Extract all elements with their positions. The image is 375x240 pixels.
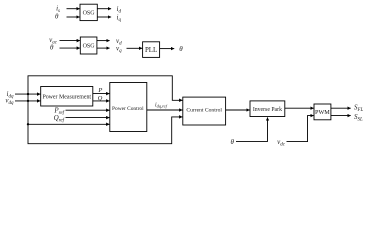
svg-text:Power Measurement: Power Measurement <box>42 94 91 100</box>
svg-text:θ: θ <box>55 12 59 20</box>
svg-text:θ: θ <box>179 45 183 53</box>
svg-text:OSG: OSG <box>83 10 96 16</box>
svg-text:PWM: PWM <box>315 109 330 116</box>
svg-text:SFL: SFL <box>354 104 364 114</box>
svg-text:SSL: SSL <box>354 113 363 123</box>
svg-text:OSG: OSG <box>83 44 96 50</box>
svg-text:Current Control: Current Control <box>186 108 222 114</box>
svg-text:vdc: vdc <box>277 138 286 148</box>
svg-text:Power Control: Power Control <box>112 106 144 112</box>
svg-text:θ: θ <box>231 138 235 146</box>
svg-text:iq: iq <box>117 13 122 23</box>
svg-text:PLL: PLL <box>145 47 157 54</box>
svg-text:P: P <box>97 87 102 94</box>
svg-text:θ: θ <box>50 43 54 51</box>
svg-text:Inverse Park: Inverse Park <box>253 107 282 113</box>
svg-text:Q: Q <box>98 95 103 102</box>
svg-text:idq,ref: idq,ref <box>155 102 168 109</box>
